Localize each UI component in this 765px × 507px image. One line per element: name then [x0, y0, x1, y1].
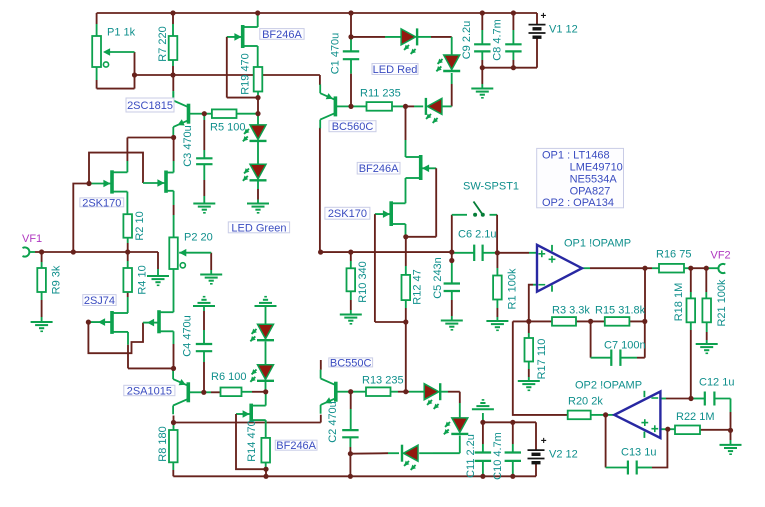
svg-text:C7 100n: C7 100n — [604, 340, 646, 352]
svg-text:R13 235: R13 235 — [362, 375, 404, 387]
svg-text:P1 1k: P1 1k — [107, 27, 136, 39]
svg-text:R12 47: R12 47 — [412, 269, 424, 304]
svg-text:+: + — [541, 11, 547, 22]
svg-text:R20 2k: R20 2k — [568, 396, 603, 408]
svg-text:BC550C: BC550C — [330, 357, 372, 369]
svg-text:R15 31.8k: R15 31.8k — [595, 305, 646, 317]
svg-text:SW-SPST1: SW-SPST1 — [463, 181, 519, 193]
svg-text:C13 1u: C13 1u — [621, 447, 656, 459]
svg-text:C3 470u: C3 470u — [182, 125, 194, 167]
svg-text:R19 470: R19 470 — [240, 53, 252, 95]
svg-text:R1 100k: R1 100k — [507, 268, 519, 309]
svg-text:BC560C: BC560C — [332, 121, 374, 133]
svg-text:OP2 : OPA134: OP2 : OPA134 — [542, 197, 614, 209]
svg-text:LED Red: LED Red — [373, 64, 418, 76]
svg-text:C12 1u: C12 1u — [699, 377, 734, 389]
svg-text:2SA1015: 2SA1015 — [127, 385, 172, 397]
svg-text:R8 180: R8 180 — [157, 426, 169, 461]
svg-text:LED Green: LED Green — [231, 222, 286, 234]
svg-text:VF2: VF2 — [711, 250, 731, 262]
svg-text:R3 3.3k: R3 3.3k — [552, 305, 590, 317]
svg-text:C4 470u: C4 470u — [182, 315, 194, 357]
svg-text:C9 2.2u: C9 2.2u — [461, 21, 473, 60]
svg-text:R22 1M: R22 1M — [676, 411, 715, 423]
svg-text:2SC1815: 2SC1815 — [127, 100, 173, 112]
svg-text:C6 2.1u: C6 2.1u — [458, 229, 497, 241]
svg-text:C2 470u: C2 470u — [327, 401, 339, 443]
svg-text:C10 4.7m: C10 4.7m — [492, 432, 504, 480]
svg-text:C11 2.2u: C11 2.2u — [465, 434, 477, 478]
svg-text:+: + — [541, 436, 547, 447]
svg-text:R10 340: R10 340 — [357, 261, 369, 303]
svg-text:2SJ74: 2SJ74 — [84, 295, 115, 307]
svg-text:C1 470u: C1 470u — [330, 33, 342, 75]
svg-text:V2 12: V2 12 — [549, 449, 578, 461]
svg-text:2SK170: 2SK170 — [82, 197, 121, 209]
svg-text:VF1: VF1 — [22, 233, 42, 245]
svg-text:R17 110: R17 110 — [536, 339, 548, 380]
svg-text:BF246A: BF246A — [359, 163, 399, 175]
svg-text:OP1 : LT1468: OP1 : LT1468 — [542, 150, 610, 162]
svg-text:OP1 !OPAMP: OP1 !OPAMP — [564, 238, 631, 250]
svg-text:NE5534A: NE5534A — [570, 174, 618, 186]
svg-text:C8 4.7m: C8 4.7m — [492, 19, 504, 61]
svg-text:P2 20: P2 20 — [184, 232, 213, 244]
svg-text:R18 1M: R18 1M — [673, 283, 685, 322]
svg-text:R7 220: R7 220 — [157, 26, 169, 61]
svg-text:LME49710: LME49710 — [570, 162, 623, 174]
svg-text:R14 470: R14 470 — [246, 420, 258, 462]
svg-text:R11 235: R11 235 — [360, 88, 401, 100]
svg-text:R21 100k: R21 100k — [716, 279, 728, 327]
svg-text:2SK170: 2SK170 — [328, 208, 367, 220]
svg-text:R5 100: R5 100 — [210, 122, 245, 134]
svg-text:V1 12: V1 12 — [549, 24, 578, 36]
svg-text:C5 243n: C5 243n — [432, 257, 444, 299]
svg-text:OPA827: OPA827 — [570, 185, 611, 197]
svg-text:R4 10: R4 10 — [137, 265, 149, 294]
svg-text:R6 100: R6 100 — [211, 371, 246, 383]
svg-text:BF246A: BF246A — [262, 29, 302, 41]
svg-text:OP2 !OPAMP: OP2 !OPAMP — [575, 380, 642, 392]
svg-text:R9 3k: R9 3k — [51, 265, 63, 294]
svg-text:R2 10: R2 10 — [134, 211, 146, 240]
svg-text:R16 75: R16 75 — [656, 249, 691, 261]
svg-text:BF246A: BF246A — [276, 440, 316, 452]
